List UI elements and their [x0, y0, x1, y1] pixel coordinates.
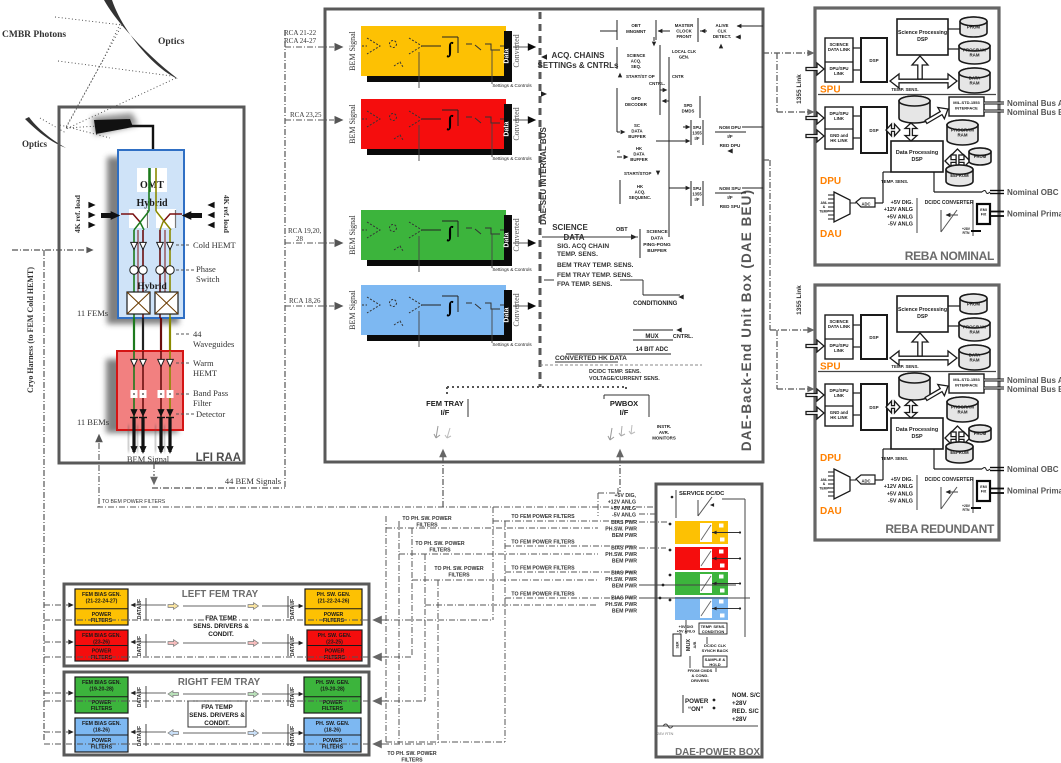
- svg-text:RAM: RAM: [958, 133, 968, 138]
- svg-text:SCIENCE: SCIENCE: [552, 223, 588, 232]
- svg-text:FEM BIAS GEN.: FEM BIAS GEN.: [82, 592, 121, 598]
- BEM signal conditioning block blue shadow: [367, 290, 512, 341]
- svg-text:SEQ.: SEQ.: [631, 64, 641, 69]
- svg-text:4K ref. load: 4K ref. load: [73, 194, 82, 233]
- red block internal amplifier 2: [409, 111, 422, 127]
- svg-text:-5V ANLG: -5V ANLG: [888, 499, 913, 505]
- svg-text:LOCAL CLK: LOCAL CLK: [672, 49, 696, 54]
- blue block internal integrator: [422, 304, 441, 306]
- svg-text:FEM BIAS GEN.: FEM BIAS GEN.: [82, 633, 121, 639]
- svg-text:Filter: Filter: [193, 398, 212, 408]
- svg-text:FPA TEMP: FPA TEMP: [205, 615, 237, 622]
- FEM channel companion wires: [137, 230, 139, 292]
- svg-text:BIAS PWR: BIAS PWR: [611, 520, 637, 526]
- right tray data wires: [131, 692, 166, 694]
- svg-text:CLOCK: CLOCK: [676, 29, 692, 34]
- REBA NOMINAL EMI filter box: [977, 204, 990, 224]
- svg-text:Cryo Harness (to FEM Cold HEMT: Cryo Harness (to FEM Cold HEMT): [26, 267, 35, 393]
- svg-text:OBT: OBT: [631, 23, 641, 28]
- green block internal switch 2: [485, 228, 500, 234]
- box REBA REDUNDANT: [815, 285, 999, 540]
- box RIGHT FEM TRAY: [64, 672, 369, 755]
- BEM (back end module) box: [117, 351, 183, 430]
- svg-text:«: «: [617, 149, 620, 155]
- REBA NOMINAL DPU four-way arrow: [945, 155, 970, 167]
- svg-text:TEMP: TEMP: [819, 209, 829, 213]
- REBA REDUNDANT DPU link boxes: [825, 384, 853, 426]
- svg-text:Nominal OBC: Nominal OBC: [1007, 188, 1059, 197]
- svg-text:-5V ANLG: -5V ANLG: [612, 513, 636, 519]
- yellow block internal switch 1: [466, 44, 481, 50]
- FEM bias gen 19-20-28 block: [75, 677, 128, 713]
- svg-text:44: 44: [193, 329, 202, 339]
- svg-text:HK LINK: HK LINK: [830, 415, 848, 420]
- svg-text:CMBR Photons: CMBR Photons: [2, 30, 66, 40]
- svg-text:Hybrid: Hybrid: [136, 198, 168, 209]
- svg-text:DPU: DPU: [820, 176, 841, 187]
- svg-text:BEM PWR: BEM PWR: [612, 559, 637, 565]
- svg-text:11 FEMs: 11 FEMs: [77, 308, 108, 318]
- svg-text:RED DPU: RED DPU: [720, 143, 741, 148]
- svg-text:DATA: DATA: [633, 152, 644, 157]
- svg-text:PH. SW. GEN.: PH. SW. GEN.: [318, 633, 352, 639]
- svg-text:+28V: +28V: [732, 716, 747, 723]
- svg-text:A/B: A/B: [692, 641, 697, 648]
- svg-text:BEM Signal: BEM Signal: [348, 289, 357, 330]
- REBA NOMINAL DAU ADC: [856, 198, 875, 207]
- green block internal mixer: [390, 225, 397, 232]
- 4K ref load arrow left: [101, 213, 113, 218]
- svg-text:BUFFER: BUFFER: [647, 248, 667, 254]
- svg-text:PROM: PROM: [967, 302, 981, 307]
- power converter block green input dot: [669, 574, 672, 577]
- REBA REDUNDANT SPU bus open arrow: [890, 351, 957, 365]
- svg-text:+5V ANLG: +5V ANLG: [887, 491, 913, 497]
- svg-text:PROM: PROM: [967, 25, 981, 30]
- REBA NOMINAL SPU dsp asic box: [861, 38, 887, 82]
- svg-text:RTN: RTN: [963, 508, 971, 512]
- svg-text:FEM BIAS GEN.: FEM BIAS GEN.: [82, 721, 121, 727]
- svg-text:Nominal Primary: Nominal Primary: [1007, 210, 1061, 219]
- svg-text:HK: HK: [636, 146, 643, 151]
- svg-text:Data: Data: [504, 48, 511, 63]
- 4K ref load wire right: [163, 214, 182, 222]
- wires OMT to hybrids: [149, 168, 151, 192]
- yellow block Data bar: [504, 31, 512, 82]
- svg-text:GEN.: GEN.: [679, 54, 689, 59]
- BEM signal conditioning block red: [361, 99, 506, 149]
- OBT down arrow: [652, 42, 656, 47]
- svg-text:CONDIT.: CONDIT.: [204, 720, 230, 727]
- svg-text:TO PH. SW. POWER: TO PH. SW. POWER: [387, 751, 436, 757]
- svg-text:DATA: DATA: [969, 352, 981, 357]
- svg-text:FEM BIAS GEN.: FEM BIAS GEN.: [82, 680, 121, 686]
- first hybrid couplers: [129, 209, 149, 228]
- svg-text:TO FEM POWER FILTERS: TO FEM POWER FILTERS: [511, 540, 575, 546]
- svg-text:DATA I/F: DATA I/F: [290, 636, 296, 656]
- REBA NOMINAL DPU program RAM cylinder: [947, 120, 978, 145]
- REBA REDUNDANT SPU dsp asic box: [861, 315, 887, 359]
- svg-text:DATA I/F: DATA I/F: [290, 599, 296, 619]
- svg-text:SEQUENC.: SEQUENC.: [629, 195, 651, 200]
- svg-text:ADC: ADC: [861, 479, 870, 484]
- svg-text:+5V ANLG: +5V ANLG: [611, 506, 636, 512]
- svg-text:CONDIT.: CONDIT.: [208, 631, 234, 638]
- svg-text:PROGRAM: PROGRAM: [963, 47, 986, 52]
- svg-text:ACQ.: ACQ.: [631, 58, 641, 63]
- svg-text:RED SPU: RED SPU: [720, 204, 741, 209]
- wire bus to ping-pong buffer: [542, 236, 638, 238]
- wire temp sens to conditioning: [544, 279, 554, 281]
- svg-text:-5V ANLG: -5V ANLG: [888, 222, 913, 228]
- right tray FPA temp boxed label: [188, 701, 246, 727]
- svg-text:HOLD: HOLD: [709, 662, 720, 667]
- power rail connect lines: [639, 521, 669, 523]
- REBA NOMINAL SPU input open arrow: [806, 63, 824, 75]
- svg-text:REBA NOMINAL: REBA NOMINAL: [905, 249, 994, 263]
- svg-text:BIAS PWR: BIAS PWR: [611, 571, 637, 577]
- svg-text:PH.SW. PWR: PH.SW. PWR: [605, 602, 637, 608]
- svg-text:CONVERTED HK DATA: CONVERTED HK DATA: [555, 355, 627, 362]
- svg-text:FILTERS: FILTERS: [91, 655, 113, 661]
- REBA NOMINAL SPU bus open arrow: [890, 74, 957, 88]
- svg-text:TO FEM POWER FILTERS: TO FEM POWER FILTERS: [511, 592, 575, 598]
- wire RCA to red BEM block: [285, 119, 334, 121]
- svg-text:Cold HEMT: Cold HEMT: [193, 240, 237, 250]
- svg-text:DATA LINK: DATA LINK: [828, 47, 851, 52]
- PWBOX IF sketch arrows: [608, 428, 614, 440]
- REBA REDUNDANT science processing DSP box: [897, 296, 948, 332]
- second hybrid couplers: [127, 292, 150, 314]
- svg-text:OMT: OMT: [140, 180, 164, 191]
- yellow block internal mixer: [390, 41, 397, 48]
- hybrid cross wires left: [134, 211, 149, 230]
- power converter block blue output wire: [712, 608, 740, 610]
- BEM signal conditioning block green: [361, 210, 506, 260]
- svg-text:BIAS PWR: BIAS PWR: [611, 596, 637, 602]
- svg-text:FILTERS: FILTERS: [323, 618, 345, 624]
- svg-text:DSP: DSP: [911, 434, 922, 440]
- BEM signal conditioning block red shadow: [367, 104, 512, 155]
- svg-text:TO PH. SW. POWER: TO PH. SW. POWER: [434, 566, 483, 572]
- svg-text:MIL-STD-1553: MIL-STD-1553: [953, 377, 980, 382]
- red block settings wires: [418, 125, 420, 161]
- svg-text:Settings & Controls: Settings & Controls: [492, 342, 532, 347]
- svg-text:CNTR: CNTR: [672, 74, 684, 79]
- REBA REDUNDANT nominal primary stub: [990, 488, 1004, 490]
- science acq seq block: [616, 47, 618, 69]
- svg-text:Filt: Filt: [981, 490, 987, 494]
- svg-text:EEPROM: EEPROM: [950, 450, 969, 455]
- svg-text:MIL-STD-1553: MIL-STD-1553: [953, 100, 980, 105]
- svg-text:EEPROM: EEPROM: [950, 173, 969, 178]
- svg-text:Data Processing: Data Processing: [896, 427, 938, 433]
- svg-text:PING-PONG: PING-PONG: [643, 242, 671, 248]
- control vertical line 2: [668, 57, 670, 237]
- svg-text:Switch: Switch: [196, 274, 220, 284]
- svg-text:TO PH. SW. POWER: TO PH. SW. POWER: [415, 541, 464, 547]
- REBA REDUNDANT SPU PROM cylinder: [960, 294, 987, 314]
- FEM bias gen 23-26 block: [75, 630, 128, 661]
- svg-text:+12V ANLG: +12V ANLG: [884, 207, 913, 213]
- FEM bias gen 18-26 block: [75, 718, 128, 752]
- REBA NOMINAL SPU data RAM cylinder: [959, 68, 990, 93]
- RCA feed bus vertical line: [284, 30, 286, 488]
- svg-text:ALIVE: ALIVE: [716, 23, 729, 28]
- GPD decoder block: [616, 88, 618, 112]
- REBA REDUNDANT DPU PROM cylinder: [969, 425, 991, 442]
- svg-text:MONITORS: MONITORS: [652, 436, 676, 441]
- svg-text:LINK: LINK: [834, 348, 845, 353]
- BEM output signal lines: [132, 418, 135, 452]
- svg-text:INSTR.: INSTR.: [657, 424, 671, 429]
- REBA REDUNDANT wires DSP to memories: [948, 305, 960, 307]
- svg-text:TEMP. SENS.: TEMP. SENS.: [891, 87, 918, 92]
- SPU 1355 IF block nominal: [690, 120, 692, 145]
- svg-text:BEM TRAY TEMP. SENS.: BEM TRAY TEMP. SENS.: [557, 262, 634, 269]
- svg-text:28V RTN: 28V RTN: [657, 731, 673, 736]
- power box 28V input line: [657, 725, 758, 727]
- svg-text:FILTERS: FILTERS: [448, 572, 470, 578]
- REBA REDUNDANT SPU/DPU divider: [818, 371, 996, 373]
- REBA REDUNDANT mil-std-1553 interface box: [949, 374, 984, 393]
- svg-text:FILTERS: FILTERS: [401, 757, 423, 763]
- svg-text:DECODER: DECODER: [625, 102, 648, 107]
- svg-text:RIGHT FEM TRAY: RIGHT FEM TRAY: [178, 677, 261, 688]
- yellow block internal amplifier 2: [409, 38, 422, 54]
- svg-text:(23-25): (23-25): [326, 639, 343, 645]
- REBA NOMINAL DPU arrows: [886, 124, 900, 136]
- svg-text:RAM: RAM: [970, 53, 980, 58]
- svg-text:PH.SW. PWR: PH.SW. PWR: [605, 527, 637, 533]
- tray power output arrows: [372, 616, 382, 625]
- svg-text:DPU: DPU: [820, 453, 841, 464]
- svg-text:1355: 1355: [692, 191, 702, 196]
- power converter block red output wire: [712, 558, 740, 560]
- svg-text:RTN: RTN: [963, 231, 971, 235]
- svg-text:Data: Data: [504, 232, 511, 247]
- start/stop cntrl labels: [618, 73, 622, 78]
- tray input stubs from cryo line: [44, 604, 68, 606]
- svg-text:DATA I/F: DATA I/F: [137, 636, 143, 656]
- FEM channel wires: [133, 230, 135, 292]
- REBA REDUNDANT EMI filter box: [977, 481, 990, 501]
- green block Data bar: [504, 215, 512, 266]
- red block Data bar: [504, 104, 512, 155]
- svg-text:PROM: PROM: [974, 154, 987, 159]
- REBA REDUNDANT SPU data RAM cylinder: [959, 345, 990, 370]
- svg-text:DATA: DATA: [969, 75, 981, 80]
- left tray data wires: [131, 604, 166, 606]
- svg-text:(21-22-24-27): (21-22-24-27): [86, 598, 118, 604]
- wire RCA to green BEM block: [285, 242, 334, 244]
- optics secondary mirror: [25, 117, 66, 148]
- OBT management block: [616, 20, 618, 40]
- REBA NOMINAL nominal bus B stub: [984, 110, 1004, 113]
- svg-text:DATA I/F: DATA I/F: [137, 687, 143, 707]
- BEM box shadow: [106, 359, 178, 433]
- svg-text:I/F: I/F: [441, 408, 450, 417]
- svg-text:DETECT.: DETECT.: [713, 34, 731, 39]
- svg-text:LINK: LINK: [834, 71, 845, 76]
- svg-text:DSP: DSP: [869, 405, 878, 410]
- REBA REDUNDANT nominal bus A stub: [984, 379, 1004, 382]
- 1355 link to REBA nominal SPU: [763, 52, 808, 54]
- svg-text:+12V ANLG: +12V ANLG: [608, 500, 636, 506]
- svg-text:DATA I/F: DATA I/F: [290, 726, 296, 746]
- svg-text:DATA I/F: DATA I/F: [290, 687, 296, 707]
- svg-text:SC: SC: [634, 123, 640, 128]
- svg-text:SCIENCE: SCIENCE: [627, 53, 646, 58]
- detectors: [130, 409, 137, 417]
- PH SW gen 19-20-28 block: [304, 677, 361, 713]
- svg-text:CLK: CLK: [717, 29, 727, 34]
- svg-text:LINK: LINK: [834, 116, 845, 121]
- svg-text:Science Processing: Science Processing: [898, 307, 947, 313]
- red block internal switch 2: [485, 117, 500, 123]
- svg-text:I/F: I/F: [620, 408, 629, 417]
- svg-text:+28V: +28V: [732, 700, 747, 707]
- svg-text:BEM Signal: BEM Signal: [348, 103, 357, 144]
- SPD DMDS block: [699, 96, 701, 118]
- svg-text:FILTERS: FILTERS: [324, 655, 346, 661]
- power converter block red input dot: [669, 549, 672, 552]
- REBA REDUNDANT SPU program RAM cylinder: [959, 318, 990, 341]
- svg-text:POWER: POWER: [325, 649, 345, 655]
- svg-text:(21-22-24-26): (21-22-24-26): [318, 598, 350, 604]
- svg-text:14 BIT ADC: 14 BIT ADC: [636, 347, 669, 353]
- svg-text:(23-26): (23-26): [93, 639, 110, 645]
- left tray power dash lines: [44, 619, 369, 621]
- svg-text:PH. SW. GEN.: PH. SW. GEN.: [317, 592, 351, 598]
- optics ray dotted lines: [55, 17, 122, 25]
- svg-text:I/F: I/F: [695, 136, 700, 141]
- svg-text:Nominal Bus A: Nominal Bus A: [1007, 99, 1061, 108]
- HK acq sequencer block: [619, 180, 621, 204]
- REBA NOMINAL data processing DSP box: [891, 141, 943, 172]
- FEM tray IF sketch arrows: [434, 426, 440, 438]
- wire master clock to OBT mngmnt: [658, 30, 670, 32]
- svg-text:(18-26): (18-26): [324, 727, 341, 733]
- svg-text:Data: Data: [504, 307, 511, 322]
- science data ping-pong buffer block: [639, 229, 641, 258]
- REBA REDUNDANT DPU four-way arrow: [945, 432, 970, 444]
- svg-text:RAM: RAM: [970, 81, 980, 86]
- svg-text:PROGRAM: PROGRAM: [951, 127, 974, 132]
- svg-text:TO FEM POWER FILTERS: TO FEM POWER FILTERS: [511, 566, 575, 572]
- 11 BEMs output arrow: [95, 434, 103, 442]
- svg-text:Optics: Optics: [22, 139, 47, 149]
- svg-text:CNTRL.: CNTRL.: [649, 81, 665, 86]
- power converter block blue: [675, 597, 728, 620]
- svg-text:RCA 23,25: RCA 23,25: [290, 111, 322, 119]
- svg-text:CNTRL.: CNTRL.: [673, 334, 694, 340]
- DAE-SEU internal bus dashed line: [539, 12, 542, 387]
- svg-text:OBT: OBT: [616, 227, 628, 233]
- power converter block yellow input dot: [669, 523, 672, 526]
- power converter block green output wire: [712, 583, 740, 585]
- service dc/dc output wire: [722, 498, 745, 500]
- blue block internal squiggle: [394, 321, 403, 326]
- red block converted data wire to bus: [513, 119, 528, 121]
- master clock front block: [697, 18, 699, 42]
- svg-text:FPA TEMP: FPA TEMP: [201, 704, 233, 711]
- box REBA NOMINAL: [815, 8, 999, 265]
- svg-text:Nominal OBC: Nominal OBC: [1007, 465, 1059, 474]
- REBA NOMINAL nominal bus A stub: [984, 102, 1004, 105]
- svg-text:1355 Link: 1355 Link: [796, 285, 803, 315]
- svg-text:DAE-POWER BOX: DAE-POWER BOX: [675, 747, 760, 758]
- svg-text:LINK: LINK: [834, 393, 845, 398]
- svg-text:HK LINK: HK LINK: [830, 138, 848, 143]
- svg-text:RED. S/C: RED. S/C: [732, 708, 759, 715]
- svg-text:Filt: Filt: [981, 213, 987, 217]
- wire RCA to blue BEM block: [285, 305, 334, 307]
- right tray mini arrows green: [168, 691, 179, 698]
- 4K ref load wire left: [121, 214, 140, 222]
- REBA NOMINAL DPU dsp asic box: [861, 107, 887, 153]
- BEM signal conditioning block yellow shadow: [367, 31, 512, 82]
- dc/dc sens dashed divider: [540, 364, 702, 366]
- phase switches: [130, 266, 138, 274]
- svg-text:TEMP. SENS.: TEMP. SENS.: [891, 364, 918, 369]
- svg-text:FILTERS: FILTERS: [91, 744, 113, 750]
- svg-text:GPD: GPD: [631, 96, 641, 101]
- svg-text:ADC: ADC: [861, 202, 870, 207]
- svg-text:MASTER: MASTER: [675, 23, 694, 28]
- yellow block converted data wire to bus: [513, 46, 528, 48]
- red block internal switch 1: [466, 117, 481, 123]
- optics primary mirror: [104, 0, 178, 79]
- svg-text:28: 28: [296, 235, 304, 243]
- svg-text:+5V DIG.: +5V DIG.: [891, 477, 914, 483]
- svg-text:INTERFACE: INTERFACE: [955, 382, 978, 387]
- svg-text:BEM PWR: BEM PWR: [612, 584, 637, 590]
- svg-text:DATA: DATA: [631, 129, 642, 134]
- svg-text:CONDITIONING: CONDITIONING: [633, 301, 678, 307]
- red block internal mixer: [390, 114, 397, 121]
- green block internal squiggle: [394, 246, 403, 251]
- svg-text:PROGRAM: PROGRAM: [951, 404, 974, 409]
- svg-text:RCA 18,26: RCA 18,26: [289, 297, 321, 305]
- yellow block settings wires: [418, 52, 420, 88]
- svg-text:Settings & Controls: Settings & Controls: [492, 83, 532, 88]
- svg-text:ACQ.: ACQ.: [635, 190, 646, 195]
- REBA REDUNDANT nominal bus B stub: [984, 387, 1004, 390]
- svg-text:+5V DIG.: +5V DIG.: [891, 200, 914, 206]
- svg-text:TEMP. SENS.: TEMP. SENS.: [557, 251, 598, 258]
- PH SW gen 21-22-24-26 block: [305, 589, 362, 625]
- svg-text:Nominal Primary: Nominal Primary: [1007, 487, 1061, 496]
- svg-text:DC/DC CONVERTER: DC/DC CONVERTER: [925, 477, 974, 483]
- REBA REDUNDANT DAU fan-in mux: [834, 469, 850, 499]
- svg-text:PH. SW. GEN.: PH. SW. GEN.: [316, 680, 350, 686]
- REBA REDUNDANT DAU ADC: [856, 475, 875, 484]
- BEM signal conditioning block yellow: [361, 26, 506, 76]
- svg-text:Settings & Controls: Settings & Controls: [492, 156, 532, 161]
- svg-text:SPD: SPD: [684, 103, 693, 108]
- svg-text:FILTERS: FILTERS: [322, 744, 344, 750]
- svg-text:DAU: DAU: [820, 506, 842, 517]
- REBA NOMINAL DAU fan-in mux: [834, 192, 850, 222]
- power box temp sens condition box: [699, 623, 727, 634]
- SPU 1355 IF block redundant: [690, 181, 692, 206]
- svg-text:NOM DPU: NOM DPU: [719, 125, 741, 130]
- yellow block internal integrator: [422, 45, 441, 47]
- REBA REDUNDANT DPU program RAM cylinder: [947, 397, 978, 422]
- power converter block red: [675, 547, 728, 570]
- svg-text:EMI: EMI: [980, 485, 986, 489]
